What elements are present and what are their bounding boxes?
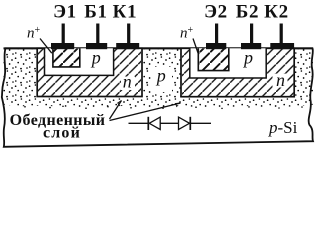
wire: lead B1 bbox=[96, 24, 99, 45]
svg-text:n: n bbox=[276, 70, 285, 90]
transistor T1 n+ emitter region bbox=[53, 48, 80, 67]
svg-text:К2: К2 bbox=[264, 2, 289, 23]
diode VD1 (isolation junction T1, cathode left) bbox=[148, 117, 160, 130]
wire: depletion leader arrow 1 bbox=[110, 101, 122, 120]
svg-text:p: p bbox=[155, 66, 166, 86]
wire: diode middle link bbox=[160, 122, 178, 124]
wire: depletion leader arrow 2 bbox=[110, 103, 181, 121]
wire: diode chain right lead bbox=[190, 122, 211, 124]
svg-text:К1: К1 bbox=[113, 2, 138, 23]
svg-text:n: n bbox=[123, 72, 132, 92]
svg-text:Э2: Э2 bbox=[204, 2, 228, 23]
wire: n+ leader arrow T1 bbox=[40, 39, 52, 54]
svg-text:p: p bbox=[90, 48, 101, 68]
node: n collector label T2 bbox=[273, 74, 288, 88]
wire: diode chain left lead bbox=[129, 122, 148, 124]
node: p substrate label gap bbox=[151, 67, 172, 92]
diode VD2 (isolation junction T2, cathode right) bbox=[179, 117, 191, 130]
contact pad K2 bbox=[270, 43, 294, 49]
node: n collector label T1 bbox=[121, 77, 135, 91]
contact pad B2 bbox=[241, 43, 261, 49]
transistor T2 n-pocket (collector n region) bbox=[181, 48, 294, 96]
depletion layer stray dots (ragged lower edge) bbox=[24, 105, 303, 109]
transistor T2 p base region bbox=[190, 48, 266, 78]
transistor T2 n+ emitter region bbox=[198, 48, 229, 70]
substrate box (p-Si wafer outline) bbox=[2, 48, 313, 147]
transistor T1 n-pocket (collector n region) bbox=[37, 48, 142, 96]
wire: lead E2 bbox=[215, 24, 218, 45]
wire: surface line bbox=[4, 47, 314, 49]
wire: n+ leader arrow T2 bbox=[193, 39, 198, 54]
wire: lead E1 bbox=[62, 24, 65, 45]
contact pad K1 bbox=[116, 43, 139, 49]
svg-text:Б2: Б2 bbox=[236, 2, 259, 23]
svg-text:слой: слой bbox=[43, 125, 81, 142]
svg-text:p-Si: p-Si bbox=[268, 118, 298, 137]
wire: lead B2 bbox=[250, 24, 253, 45]
wire: lead K2 bbox=[280, 24, 283, 45]
contact pad B1 bbox=[86, 43, 107, 49]
wire: lead K1 bbox=[127, 24, 130, 45]
svg-text:Б1: Б1 bbox=[84, 2, 107, 23]
svg-text:p: p bbox=[242, 47, 253, 67]
transistor T1 p base region bbox=[45, 48, 114, 75]
contact pad E2 bbox=[206, 43, 226, 49]
contact pad E1 bbox=[51, 43, 74, 49]
depletion layer stipple region around pockets bbox=[4, 49, 315, 108]
svg-text:Э1: Э1 bbox=[53, 2, 77, 23]
